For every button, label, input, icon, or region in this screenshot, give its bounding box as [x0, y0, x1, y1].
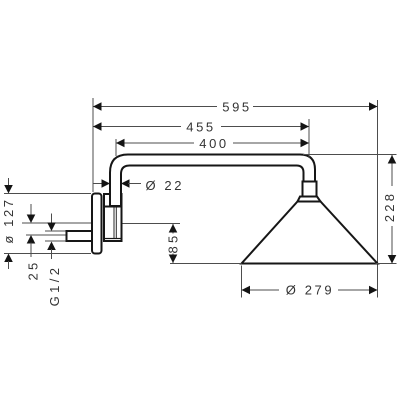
dimension ø127 (flange) — [1, 178, 16, 269]
dimension 85 — [166, 224, 181, 263]
reference line axis (25 top / 85 top) — [22, 222, 91, 224]
svg-text:85: 85 — [166, 233, 181, 254]
connector nut — [303, 182, 317, 197]
dimension 400 — [116, 136, 309, 151]
head collar — [298, 197, 321, 202]
svg-text:Ø 279: Ø 279 — [286, 283, 334, 298]
wall plate ø127 — [92, 194, 102, 254]
shower arm pipe — [110, 155, 315, 207]
connector box upper seam — [104, 206, 122, 208]
connector box lower seam — [105, 238, 121, 240]
dimension G1/2 — [47, 214, 62, 307]
ø127 extension bottom — [4, 253, 91, 255]
wall extension line — [92, 98, 94, 192]
extension line cone bottom right — [376, 263, 397, 265]
svg-text:ø 127: ø 127 — [1, 197, 16, 243]
svg-text:228: 228 — [382, 191, 397, 222]
extension line 400 left — [115, 139, 117, 156]
extension line arm top right — [303, 154, 397, 156]
svg-text:400: 400 — [199, 136, 229, 151]
dimension Ø22 pointing to arm pipe — [93, 178, 184, 193]
shower head cone — [242, 202, 378, 264]
ø127 extension top — [4, 193, 91, 195]
dimension 228 — [382, 155, 397, 264]
right extension line 595 / Ø279 — [377, 100, 379, 298]
reference line G1/2 top — [45, 230, 66, 232]
dimension 455 — [93, 120, 309, 135]
reference line G1/2 bottom — [45, 240, 66, 242]
svg-text:25: 25 — [26, 260, 41, 281]
reference line 25 bottom — [26, 234, 66, 236]
wall connector box — [104, 194, 122, 241]
connector box inner lines — [113, 208, 115, 239]
extension line head center (455/400) — [308, 119, 310, 158]
svg-text:G1/2: G1/2 — [47, 265, 62, 307]
dimension Ø279 — [242, 266, 378, 298]
svg-text:455: 455 — [186, 120, 216, 135]
dimension 25 — [26, 204, 41, 280]
extension line head center lower segment — [308, 156, 310, 159]
supply stub pipe G1/2 — [67, 231, 93, 241]
svg-text:595: 595 — [222, 100, 252, 115]
svg-text:Ø 22: Ø 22 — [146, 178, 185, 193]
extension line cone bottom left — [170, 263, 242, 265]
dimension 595 — [93, 100, 378, 115]
